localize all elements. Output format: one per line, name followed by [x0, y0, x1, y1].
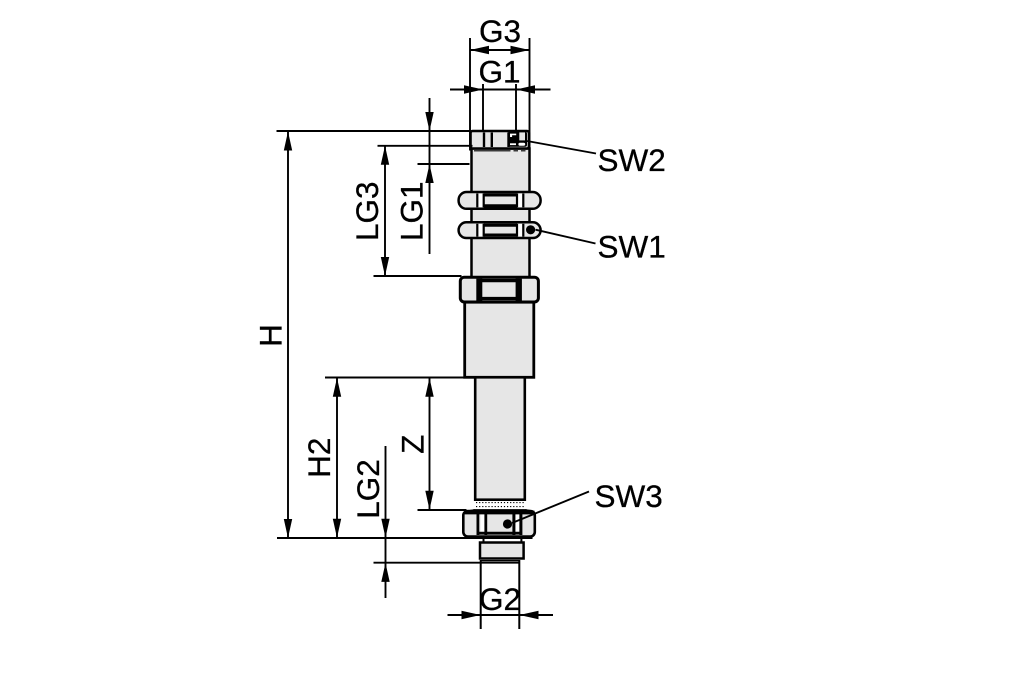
svg-text:H: H	[253, 324, 289, 347]
set-screw dot on SW1	[526, 225, 535, 234]
extension line LG2 bottom (thread start)	[374, 562, 520, 564]
leader SW2	[527, 141, 666, 178]
svg-text:LG2: LG2	[350, 459, 386, 519]
dimension LG2	[350, 446, 390, 598]
svg-text:G2: G2	[479, 581, 521, 617]
body section 3 (lower tube)	[475, 377, 525, 499]
body section 1 (upper cylinder)	[472, 149, 530, 279]
thread stub G2 outline	[481, 560, 520, 629]
extension line LG1 bottom	[418, 163, 470, 165]
leader SW1	[536, 229, 666, 265]
dimension H	[253, 132, 293, 539]
svg-text:Z: Z	[395, 435, 431, 454]
hex collar ring (upper locknut)	[459, 192, 541, 209]
svg-text:LG3: LG3	[349, 181, 385, 241]
hex collar ring SW1	[459, 222, 541, 238]
thread start double line	[481, 560, 520, 562]
set-screw dot on SW3	[503, 519, 512, 528]
extension line G3 left	[469, 38, 471, 151]
extension line G1 right	[515, 84, 517, 131]
large hex nut	[460, 277, 538, 302]
extension line H2/Z top (shoulder step)	[325, 377, 466, 379]
thread relief band	[466, 503, 535, 512]
svg-text:SW1: SW1	[598, 229, 666, 265]
extension line G1 left	[482, 84, 484, 131]
svg-text:H2: H2	[301, 438, 337, 478]
dimension G3	[470, 13, 530, 54]
bottom collar	[480, 543, 524, 559]
dimension G1	[450, 54, 551, 94]
svg-text:LG1: LG1	[393, 181, 429, 241]
body section 2 (wide cylinder below nut)	[465, 302, 534, 377]
dimension H2	[301, 378, 341, 538]
svg-text:G3: G3	[479, 13, 521, 49]
hex nut SW3	[463, 511, 535, 537]
extension line Z bottom (top of SW3)	[418, 509, 467, 511]
svg-text:SW2: SW2	[598, 142, 666, 178]
dimension LG3	[349, 146, 389, 276]
extension line LG3 bottom (top of large nut)	[374, 275, 462, 277]
svg-text:G1: G1	[478, 54, 520, 90]
dimension Z	[395, 378, 434, 510]
neck below SW3	[484, 537, 522, 543]
leader SW3	[512, 478, 663, 523]
extension line under SW2 (LG3 top)	[378, 145, 473, 147]
chamfer line under SW2 hex	[474, 150, 529, 152]
dimension LG1	[393, 98, 433, 254]
svg-text:SW3: SW3	[595, 478, 663, 514]
bottom reference line	[277, 537, 533, 539]
extension line G3 right	[529, 38, 531, 151]
hex nut SW2	[471, 131, 530, 149]
top reference line (top of part)	[277, 130, 471, 132]
dimension G2	[448, 581, 554, 619]
